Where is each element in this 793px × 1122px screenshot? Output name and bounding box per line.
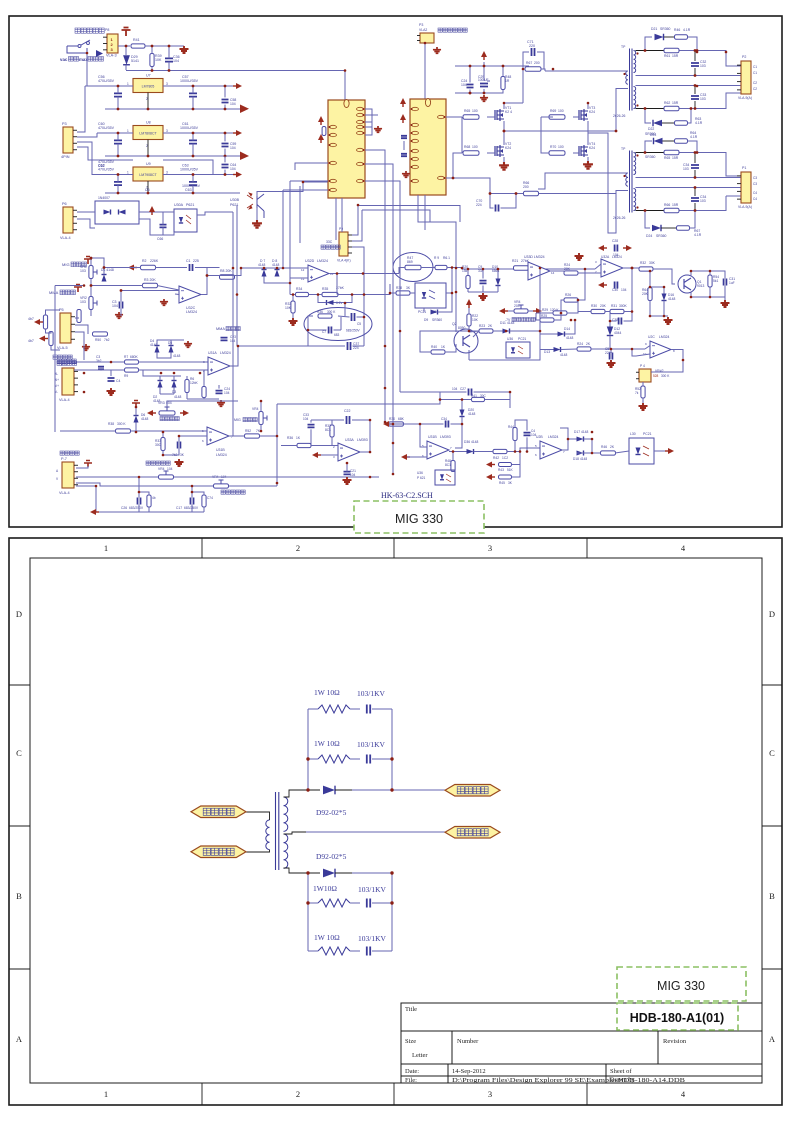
svg-text:V+: V+ — [55, 384, 59, 388]
power arrow opto — [149, 206, 155, 212]
potentiometer VR4v — [252, 407, 267, 425]
svg-text:P3: P3 — [419, 23, 423, 27]
capacitor C37 — [348, 342, 360, 350]
svg-text:30K: 30K — [649, 261, 656, 265]
power arrow ground rail 1 — [240, 105, 249, 114]
svg-text:103: 103 — [700, 97, 706, 101]
resistor R26 — [564, 293, 578, 302]
svg-text:8C1: 8C1 — [325, 428, 331, 432]
resistor 4b7 a — [28, 315, 48, 329]
svg-text:1uF: 1uF — [729, 281, 735, 285]
svg-text:15R: 15R — [672, 101, 679, 105]
svg-text:U30B: U30B — [230, 198, 240, 202]
svg-text:A: A — [16, 1034, 23, 1044]
wire U30B collector to IC1 — [257, 182, 330, 196]
svg-text:4148: 4148 — [668, 297, 676, 301]
diode zener 6.2v — [327, 300, 343, 305]
ground C24b — [217, 400, 225, 406]
wire U31A to C37 bus — [238, 345, 308, 347]
capacitor C63 output — [189, 175, 197, 194]
wire IC1 to P9 vertical — [341, 198, 343, 232]
wire T2 primary bottom lead — [608, 191, 628, 234]
ground U30B — [252, 220, 262, 228]
connector P6 — [60, 202, 77, 240]
wire T1 primary bottom lead — [616, 89, 628, 132]
resistor R22 — [467, 314, 479, 326]
svg-text:L30: L30 — [630, 432, 636, 436]
resistor R68 gate2 — [463, 145, 479, 155]
column numbers top — [104, 543, 686, 553]
svg-text:103/1KV: 103/1KV — [358, 885, 387, 894]
svg-text:104: 104 — [621, 288, 627, 292]
resistor C74 — [202, 495, 213, 507]
svg-text:104: 104 — [112, 304, 118, 308]
junction dots switch block — [125, 45, 171, 72]
svg-text:R6.1: R6.1 — [443, 256, 450, 260]
power bar MMA — [74, 285, 82, 293]
svg-text:P3: P3 — [62, 122, 67, 126]
diode D9 — [424, 309, 442, 322]
wire U32D output — [329, 273, 399, 275]
svg-text:R36: R36 — [287, 436, 293, 440]
svg-text:1W 10Ω: 1W 10Ω — [314, 933, 340, 942]
wire IC1 right pin bus — [365, 109, 378, 135]
resistor R48 — [501, 75, 511, 90]
svg-text:U7: U7 — [146, 74, 151, 78]
svg-text:4b7: 4b7 — [28, 317, 34, 321]
svg-text:SR360: SR360 — [645, 155, 655, 159]
svg-text:U30A: U30A — [174, 203, 184, 207]
ground switch block — [180, 46, 189, 53]
wire R33 — [292, 295, 294, 302]
svg-text:P8: P8 — [105, 28, 109, 32]
wire gate2 tap — [453, 153, 462, 178]
potentiometer VR6 — [212, 475, 229, 488]
svg-text:869: 869 — [407, 260, 413, 264]
wire T2 row1 — [636, 152, 665, 154]
wire T2 row2 — [636, 177, 742, 179]
svg-text:4148: 4148 — [560, 353, 568, 357]
wire VT1 VT2 chain — [487, 103, 523, 162]
connector P9 current detect — [339, 227, 352, 256]
wire P7 row extension — [276, 436, 278, 486]
svg-text:C7: C7 — [322, 330, 326, 334]
svg-text:A+: A+ — [55, 378, 59, 382]
svg-text:MIG: MIG — [62, 262, 70, 267]
svg-text:VLA-9(A): VLA-9(A) — [738, 205, 752, 209]
capacitor C36a — [165, 46, 180, 71]
svg-text:PC21: PC21 — [418, 310, 426, 314]
svg-text:Letter: Letter — [412, 1052, 428, 1059]
svg-text:MIG 330: MIG 330 — [657, 979, 705, 993]
wire D20 C34 row — [389, 400, 462, 449]
svg-text:D9: D9 — [424, 318, 428, 322]
wire U33A io — [281, 446, 370, 472]
wire U9 ground pin — [147, 181, 149, 193]
wire IC1 pin7 — [365, 164, 393, 210]
svg-text:R24: R24 — [577, 342, 583, 346]
regulator U9 LM7908CT — [127, 162, 168, 190]
power arrow R43 — [486, 462, 492, 468]
svg-text:C22: C22 — [344, 409, 350, 413]
svg-text:D3: D3 — [172, 390, 176, 394]
svg-text:TP: TP — [621, 45, 626, 49]
power arrow IC2 pin1 — [400, 98, 406, 104]
row letters left — [16, 609, 23, 1044]
ground D4 D5 — [184, 341, 192, 347]
diode D1 D92-02*5 — [323, 786, 392, 795]
svg-text:LM324: LM324 — [220, 351, 231, 355]
diode D12 — [607, 327, 622, 336]
power arrow IC1 pin a — [318, 116, 324, 122]
svg-text:U31B: U31B — [428, 435, 437, 439]
svg-text:10K: 10K — [155, 58, 162, 62]
junction dot bridge1 — [503, 130, 506, 133]
ground P5 — [82, 344, 90, 350]
svg-text:Number: Number — [457, 1038, 479, 1045]
wire ellipse net — [308, 303, 364, 330]
svg-text:D36: D36 — [464, 440, 470, 444]
resistor R70 gate4 — [549, 145, 565, 155]
wire bridge1 mid to T1 — [504, 130, 616, 132]
svg-text:104: 104 — [230, 167, 236, 171]
diode D-7 — [258, 259, 267, 277]
svg-text:R65: R65 — [464, 109, 470, 113]
svg-text:D92-02*5: D92-02*5 — [316, 808, 347, 817]
regulator U7 LM7805 — [127, 74, 168, 102]
svg-text:R30: R30 — [591, 304, 597, 308]
capacitor C2 103/1KV snubber — [367, 755, 392, 764]
wire R47 row — [399, 268, 405, 274]
resistor R45 — [499, 475, 513, 485]
svg-text:100: 100 — [472, 145, 478, 149]
power arrow VR3 right — [183, 410, 189, 416]
resistor R21 — [512, 259, 530, 270]
svg-text:4148: 4148 — [174, 395, 182, 399]
ground U31B input — [175, 459, 184, 466]
svg-text:R23: R23 — [479, 324, 485, 328]
svg-text:C1: C1 — [753, 65, 757, 69]
svg-text:15R: 15R — [672, 156, 679, 160]
junction dots U7 rails — [117, 85, 195, 111]
resistor R35 — [322, 286, 345, 297]
ground IC2 left — [402, 171, 410, 177]
resistor R12 — [77, 310, 81, 323]
wire U30B emitter — [256, 208, 258, 220]
svg-text:1: 1 — [104, 543, 108, 553]
wire switch to regulator rail — [86, 53, 88, 86]
svg-text:4b: 4b — [152, 496, 156, 500]
svg-text:7k: 7k — [635, 391, 639, 395]
svg-text:30C: 30C — [480, 394, 487, 398]
wire U31Bb out row — [449, 420, 540, 452]
svg-text:4b7: 4b7 — [28, 339, 34, 343]
capacitor C58 — [222, 85, 237, 111]
wire opamp U31A output up — [237, 346, 239, 366]
capacitor C13 — [172, 442, 185, 458]
wire fan to IC2 — [424, 43, 426, 100]
svg-text:9013: 9013 — [697, 284, 705, 288]
capacitor C34a — [683, 153, 699, 178]
wire U32C io — [611, 346, 683, 361]
power arrow Q2 — [466, 299, 472, 305]
capacitor C38 — [612, 318, 621, 325]
capacitor C61 output — [189, 133, 197, 156]
op-amp U32C left — [179, 286, 201, 314]
label aux power fan — [438, 28, 442, 32]
svg-text:1W 10Ω: 1W 10Ω — [314, 739, 340, 748]
wire C27 R41 rows — [400, 392, 510, 408]
ground VT2 — [499, 162, 509, 170]
flag output negative — [445, 827, 500, 839]
power arrow U7 output — [236, 83, 242, 89]
diode D-8 — [272, 259, 280, 277]
green dashed box MIG 330 (bottom) — [617, 967, 746, 1001]
power bar P7 — [84, 461, 92, 468]
svg-text:LM7808CT: LM7808CT — [139, 132, 157, 136]
svg-text:4.1R: 4.1R — [690, 135, 698, 139]
svg-text:10K: 10K — [472, 318, 479, 322]
op-amp U33D — [524, 255, 555, 280]
svg-text:226K: 226K — [150, 259, 159, 263]
wire IC1 left pins out — [283, 163, 328, 190]
svg-text:220: 220 — [529, 44, 535, 48]
connector P5 — [57, 308, 75, 350]
ground C5 — [115, 312, 123, 318]
label meter head — [60, 451, 64, 455]
svg-text:VR4: VR4 — [252, 407, 259, 411]
resistor R31 — [610, 304, 628, 314]
ground U32C input — [160, 299, 168, 305]
label C61 — [180, 122, 199, 130]
svg-text:C26: C26 — [121, 506, 127, 510]
svg-text:4.1R: 4.1R — [694, 233, 702, 237]
label current detect — [321, 245, 325, 249]
svg-text:File:: File: — [405, 1077, 417, 1084]
wire T2 primary top lead — [538, 173, 628, 189]
op-amp U32D — [301, 259, 334, 282]
wire diode row — [540, 320, 645, 350]
connector P3 fan — [417, 23, 434, 43]
wire U8 input rail — [97, 132, 133, 134]
svg-text:300 K: 300 K — [327, 310, 336, 314]
wire R43 R45 join — [512, 452, 521, 478]
junction dots T2 — [644, 151, 699, 212]
wire R49 to bus — [447, 268, 595, 270]
svg-text:2626-26: 2626-26 — [613, 216, 626, 220]
optocoupler U30A — [174, 203, 197, 232]
label actual current sample — [221, 490, 225, 494]
power bar MIG — [84, 257, 92, 265]
capacitor C57 output — [189, 86, 197, 109]
svg-text:D18: D18 — [573, 457, 579, 461]
potentiometer VR3 — [158, 401, 175, 415]
svg-text:R65: R65 — [664, 156, 670, 160]
wire long vertical bus A — [232, 212, 234, 436]
svg-text:200: 200 — [534, 61, 540, 65]
svg-text:104: 104 — [613, 253, 619, 257]
svg-text:103: 103 — [80, 269, 86, 273]
svg-text:R62: R62 — [664, 101, 670, 105]
capacitor C60 input — [114, 133, 122, 156]
svg-text:Title: Title — [405, 1006, 417, 1013]
svg-text:14: 14 — [551, 271, 555, 275]
svg-text:683: 683 — [334, 333, 340, 337]
wire U31A input rows — [74, 362, 208, 376]
svg-text:4148: 4148 — [150, 343, 158, 347]
resistor R66 200 — [523, 181, 539, 196]
resistor R66 row4 — [664, 203, 679, 213]
transformer T1 secondary winding lower — [284, 834, 288, 868]
optocoupler U29 box — [95, 196, 139, 224]
capacitor C4 — [108, 378, 121, 383]
wire right snubber bus upper — [391, 709, 393, 791]
connector P4 — [55, 363, 78, 402]
svg-text:1R: 1R — [505, 79, 510, 83]
svg-text:Date:: Date: — [405, 1068, 419, 1075]
label D23 — [645, 133, 656, 159]
svg-text:4148: 4148 — [173, 354, 181, 358]
svg-text:D5: D5 — [168, 341, 172, 345]
svg-text:U36: U36 — [417, 471, 423, 475]
wire Q1 net — [691, 271, 725, 300]
row letters right — [769, 609, 776, 1044]
label VR#2 — [653, 369, 670, 378]
capacitor C33 — [691, 86, 706, 109]
wire U31Bb in — [407, 424, 427, 457]
svg-text:MMA: MMA — [216, 327, 225, 331]
svg-text:470U/35V: 470U/35V — [98, 168, 115, 172]
wire VR2 net — [642, 382, 644, 386]
capacitor C71 — [523, 40, 544, 69]
svg-text:R61: R61 — [664, 54, 670, 58]
svg-text:R45: R45 — [499, 481, 505, 485]
diode D16b — [464, 440, 479, 454]
svg-text:12bK: 12bK — [190, 381, 199, 385]
svg-text:4PIN: 4PIN — [61, 155, 70, 159]
svg-text:C3: C3 — [753, 182, 757, 186]
capacitor C51 — [605, 347, 612, 360]
resistor R4 1W 10R snubber — [308, 947, 360, 955]
wire U9 input rail — [92, 174, 133, 176]
wire R21 — [529, 267, 541, 269]
op-amp U31A — [203, 351, 231, 375]
svg-text:14-Sep-2012: 14-Sep-2012 — [452, 1068, 486, 1075]
svg-text:U31B: U31B — [216, 448, 225, 452]
power arrow aux supply — [481, 51, 487, 57]
resistor R1 1W 10R snubber — [308, 705, 360, 713]
svg-text:470U/35V: 470U/35V — [98, 126, 115, 130]
connector VLA-3 — [96, 28, 118, 57]
label welder type — [53, 355, 57, 359]
wire U8 ground rail — [105, 155, 240, 157]
resistor R23 — [479, 324, 493, 333]
ellipse highlight C5 network — [304, 308, 372, 341]
svg-text:104: 104 — [350, 473, 356, 477]
resistor R43 — [498, 463, 514, 473]
resistor R47 — [405, 256, 421, 270]
svg-text:R8 20K: R8 20K — [220, 269, 232, 273]
wire bottom rail — [96, 477, 204, 512]
wire U8 output rail — [163, 132, 234, 134]
wire zener — [334, 295, 353, 303]
svg-text:8C1: 8C1 — [445, 463, 451, 467]
svg-text:U32D: U32D — [305, 259, 315, 263]
diode D22 branch — [645, 109, 674, 127]
svg-text:PC21: PC21 — [643, 432, 652, 436]
svg-text:VR4: VR4 — [158, 467, 165, 471]
svg-text:4148: 4148 — [471, 440, 479, 444]
svg-text:K24: K24 — [589, 110, 595, 114]
resistor R33b — [155, 438, 165, 451]
svg-text:D22: D22 — [648, 127, 654, 131]
svg-text:U36: U36 — [507, 337, 513, 341]
svg-text:D17: D17 — [574, 430, 580, 434]
resistor R42 — [493, 449, 508, 460]
capacitor C59 — [222, 132, 237, 158]
resistor R24 — [564, 263, 578, 275]
wire T1 primary top lead — [545, 70, 628, 72]
junction dots snubber buses — [306, 757, 393, 904]
wire R8 to U32D — [235, 268, 242, 276]
label output sample — [57, 359, 61, 363]
svg-text:683/250V: 683/250V — [129, 506, 144, 510]
wire U31A out — [230, 346, 238, 366]
label MIG big current — [62, 262, 86, 267]
optocoupler L30 — [629, 432, 654, 464]
svg-text:104: 104 — [452, 387, 458, 391]
resistor R61 row1 — [664, 48, 679, 58]
svg-text:10K: 10K — [285, 306, 292, 310]
svg-text:U2C: U2C — [648, 335, 655, 339]
op-amp U32B — [535, 435, 565, 459]
resistor R8 — [220, 269, 235, 279]
capacitor C9 — [478, 265, 487, 283]
resistor R3 1W 10R snubber — [308, 899, 360, 907]
svg-text:C27: C27 — [460, 387, 466, 391]
svg-text:R43: R43 — [498, 468, 504, 472]
power arrow 4b7 b — [39, 336, 45, 342]
ground Q1 — [721, 300, 730, 307]
wire bottom rail to IC1 top — [126, 71, 345, 101]
wire IC1 pin6 long right — [365, 150, 385, 205]
capacitor C31 — [724, 277, 736, 286]
wire IC2 bottom bus — [418, 195, 456, 332]
svg-text:8050: 8050 — [458, 326, 466, 330]
label MMA big current — [49, 290, 75, 295]
svg-text:528: 528 — [653, 374, 659, 378]
resistor R52b — [635, 386, 645, 398]
resistor R69 gate3 — [549, 109, 565, 119]
svg-text:R7: R7 — [124, 355, 128, 359]
wire P9 right bus — [352, 205, 364, 346]
capacitor C28 — [612, 239, 619, 257]
svg-text:2: 2 — [296, 543, 300, 553]
wire U32D input row — [241, 268, 308, 283]
diode D2 — [153, 376, 163, 403]
svg-text:LM324: LM324 — [659, 335, 669, 339]
svg-text:15R: 15R — [672, 203, 679, 207]
transistor VT2 — [495, 142, 511, 157]
svg-text:103/1KV: 103/1KV — [357, 740, 386, 749]
svg-text:U9: U9 — [146, 162, 151, 166]
svg-text:4148: 4148 — [566, 336, 574, 340]
svg-text:R 9: R 9 — [434, 256, 439, 260]
bottom sheet inner border — [30, 558, 762, 1083]
wire R21 D11 bus — [469, 268, 540, 360]
svg-text:D92-02*5: D92-02*5 — [316, 852, 347, 861]
ground fan connector — [433, 47, 441, 53]
